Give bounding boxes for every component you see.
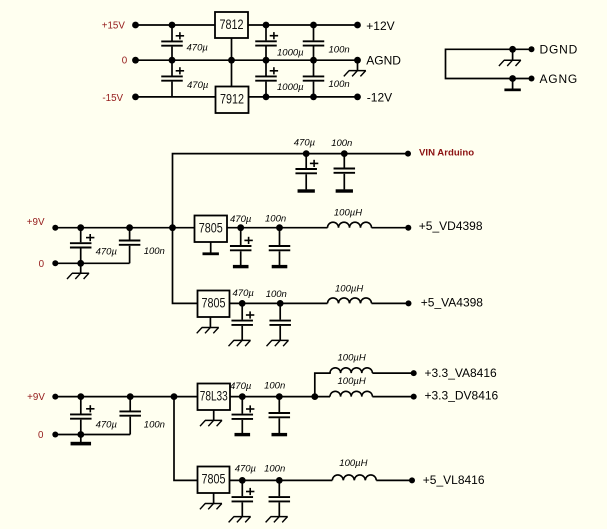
svg-text:78L33: 78L33: [200, 389, 228, 404]
svg-text:100n: 100n: [265, 213, 286, 224]
svg-text:100n: 100n: [144, 420, 165, 431]
svg-text:0: 0: [122, 56, 128, 67]
svg-text:0: 0: [38, 430, 44, 441]
svg-text:470µ: 470µ: [230, 381, 252, 392]
svg-text:0: 0: [39, 259, 45, 270]
svg-text:7912: 7912: [220, 92, 244, 107]
svg-text:470µ: 470µ: [187, 43, 209, 54]
svg-text:470µ: 470µ: [235, 464, 257, 475]
svg-text:470µ: 470µ: [230, 214, 252, 225]
svg-text:1000µ: 1000µ: [277, 47, 304, 58]
svg-text:+9V: +9V: [27, 217, 45, 228]
svg-text:100n: 100n: [264, 381, 285, 392]
svg-text:100n: 100n: [329, 79, 350, 90]
svg-text:+5_VA4398: +5_VA4398: [421, 295, 483, 309]
svg-text:1000µ: 1000µ: [277, 82, 304, 93]
svg-text:+5_VD4398: +5_VD4398: [419, 219, 483, 233]
svg-text:100n: 100n: [329, 45, 350, 56]
svg-text:+5_VL8416: +5_VL8416: [423, 473, 485, 487]
svg-text:+3.3_DV8416: +3.3_DV8416: [425, 388, 499, 402]
svg-text:100µH: 100µH: [339, 458, 367, 469]
svg-text:+3.3_VA8416: +3.3_VA8416: [425, 366, 498, 380]
svg-text:470µ: 470µ: [96, 420, 118, 431]
svg-text:7805: 7805: [202, 296, 226, 311]
svg-text:7805: 7805: [202, 472, 226, 487]
svg-text:-15V: -15V: [102, 93, 123, 104]
svg-text:470µ: 470µ: [187, 80, 209, 91]
svg-text:VIN Arduino: VIN Arduino: [419, 148, 474, 159]
svg-text:470µ: 470µ: [96, 246, 118, 257]
svg-text:100µH: 100µH: [334, 208, 362, 219]
svg-text:100n: 100n: [144, 246, 165, 257]
svg-text:7812: 7812: [220, 17, 244, 32]
svg-text:-12V: -12V: [367, 91, 392, 105]
svg-text:470µ: 470µ: [294, 137, 316, 148]
svg-text:100n: 100n: [264, 464, 285, 475]
svg-text:100µH: 100µH: [338, 376, 366, 387]
svg-text:7805: 7805: [199, 221, 223, 236]
svg-text:470µ: 470µ: [233, 288, 255, 299]
svg-text:AGNG: AGNG: [540, 72, 579, 86]
svg-text:100n: 100n: [266, 289, 287, 300]
svg-text:+9V: +9V: [27, 392, 45, 403]
svg-text:DGND: DGND: [540, 43, 579, 57]
svg-text:AGND: AGND: [366, 54, 401, 68]
svg-text:+12V: +12V: [366, 19, 394, 33]
svg-text:100µH: 100µH: [338, 352, 366, 363]
svg-text:100µH: 100µH: [335, 283, 363, 294]
svg-text:+15V: +15V: [102, 20, 126, 31]
svg-text:100n: 100n: [331, 138, 352, 149]
